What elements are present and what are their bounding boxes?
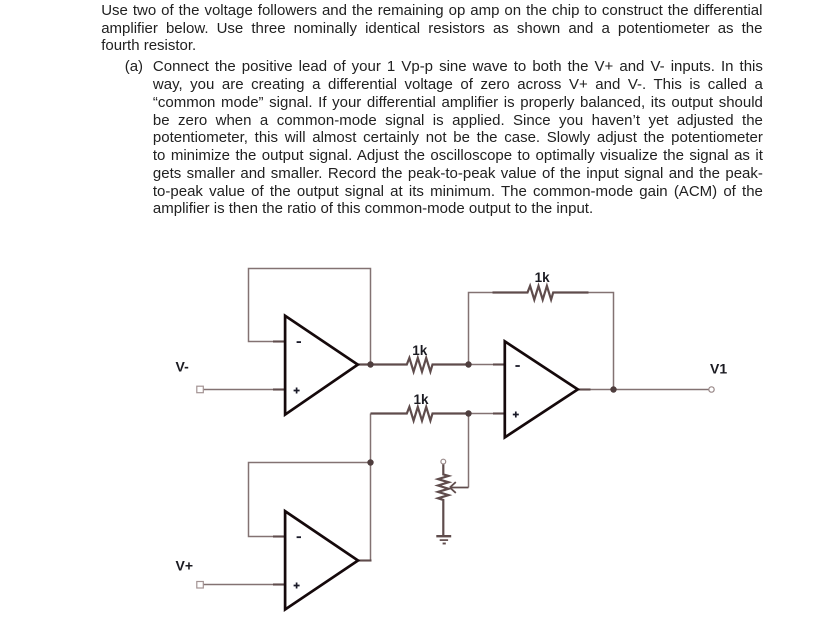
wire U3 feedback left riser: [469, 293, 493, 365]
pin stub U3 non-inverting: [493, 412, 506, 414]
wire U3 output to V1 terminal: [590, 389, 709, 391]
resistor R2 1k (V+ path to U3 non-inverting node): [371, 407, 469, 421]
node D: U2 feedback junction: [367, 459, 373, 465]
label U2 inverting minus: [297, 536, 301, 538]
node C: U3 non-inverting input junction: [465, 410, 471, 416]
wire U3 feedback right drop: [589, 293, 614, 390]
pin stub U3 inverting: [493, 363, 506, 365]
wire V+ input: [204, 584, 277, 586]
resistor R1 1k (between followers' node and U3 inverting node): [358, 358, 469, 372]
op-amp U3 (difference amplifier): [505, 341, 578, 437]
paragraph (a): [153, 58, 763, 218]
op-amp U1 (voltage follower, V-): [285, 316, 358, 415]
terminal V- (square): [197, 386, 204, 393]
potentiometer top terminal (circle): [441, 459, 446, 464]
label U3 non-inverting plus: [513, 412, 519, 418]
potentiometer body (vertical resistor): [438, 464, 449, 535]
pin stub U1 inverting: [273, 340, 286, 342]
wire feedback loop U2: [249, 463, 371, 537]
pin stub U1 non-inverting: [273, 388, 286, 390]
label U1 non-inverting plus: [294, 388, 300, 394]
node A: U1 output junction: [367, 361, 373, 367]
node B: U3 inverting input junction: [465, 361, 471, 367]
wire node to U3 non-inverting stub: [469, 413, 495, 415]
svg-text:V-: V-: [176, 359, 190, 375]
node E: output junction: [610, 386, 616, 392]
op-amp U2 (voltage follower, V+): [285, 511, 358, 609]
paragraph 1: [101, 2, 762, 55]
wire V- input: [204, 389, 277, 391]
ground: [436, 536, 451, 543]
svg-text:1k: 1k: [535, 270, 551, 285]
wire node down to potentiometer wiper: [468, 414, 470, 488]
svg-text:1k: 1k: [412, 343, 428, 358]
pin stub U2 output: [358, 559, 372, 561]
pin stub U2 inverting: [273, 535, 286, 537]
wire U2 output riser to R2: [370, 414, 372, 561]
wire feedback loop U1: [249, 269, 371, 365]
svg-text:V1: V1: [710, 361, 727, 377]
terminal V1 (circle): [709, 387, 714, 392]
svg-text:V+: V+: [176, 557, 194, 573]
svg-text:1k: 1k: [413, 392, 429, 407]
label U2 non-inverting plus: [294, 583, 300, 589]
pin stub U2 non-inverting: [273, 583, 286, 585]
wire node to U3 inverting stub: [469, 364, 495, 366]
pin stub U3 output: [578, 388, 591, 390]
resistor R3 1k (U3 feedback): [493, 286, 589, 300]
label U1 inverting minus: [297, 341, 301, 343]
potentiometer wiper arrow: [450, 482, 469, 493]
terminal V+ (square): [197, 582, 204, 589]
label U3 inverting minus: [515, 365, 519, 367]
